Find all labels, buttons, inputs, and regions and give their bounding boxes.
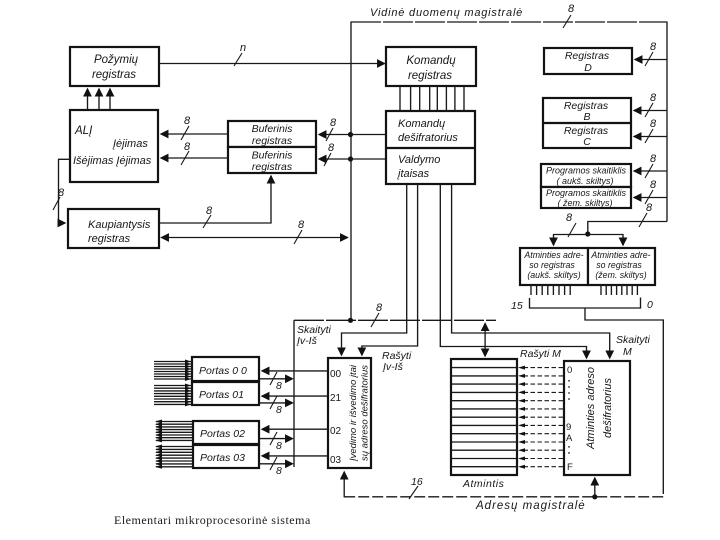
wire MAR output to right address vertical: [585, 308, 663, 494]
wire left bus vertical: [350, 22, 352, 321]
junction dot: [348, 156, 353, 161]
svg-text:8: 8: [650, 41, 657, 53]
box Portas 02: [193, 421, 259, 444]
box Atminties adreso desifratorius (memory decoder): [564, 361, 630, 475]
bus width 8 marker: [203, 205, 213, 228]
wire control line Skaityti M from Valdymo: [452, 184, 610, 358]
label Rasyti M: [520, 348, 561, 360]
svg-text:8: 8: [276, 404, 282, 416]
label port select 03: [330, 455, 342, 466]
svg-text:8: 8: [328, 142, 335, 154]
svg-text:8: 8: [650, 153, 657, 165]
svg-text:Atminties adreso: Atminties adreso: [585, 367, 597, 450]
wire select line decoder to Portas 01: [262, 395, 328, 397]
svg-text:Valdymo: Valdymo: [398, 154, 440, 166]
wire data line Portas 01 to bus vertical: [259, 402, 293, 404]
junction dot: [348, 132, 353, 137]
svg-text:16: 16: [411, 476, 423, 488]
box Atminties adreso registras (auks. skiltys): [520, 248, 588, 285]
label Rasyti Iv-Is: [382, 350, 412, 373]
label F inside decoder: [567, 462, 573, 473]
wire select line decoder to Portas 00: [262, 370, 328, 372]
wire bus to Registras B: [634, 110, 667, 112]
svg-text:Registras: Registras: [565, 50, 610, 62]
wire bus to Buferinis1: [319, 134, 351, 136]
svg-text:so registras: so registras: [529, 260, 575, 270]
svg-text:Buferinis: Buferinis: [252, 150, 294, 162]
wire Buferinis2 to ALU input: [161, 157, 228, 159]
svg-text:Įvedimo ir išvedimo įtai: Įvedimo ir išvedimo įtai: [348, 364, 359, 462]
svg-text:n: n: [240, 42, 246, 54]
label port select 02: [330, 426, 342, 437]
dots between A and F: [568, 446, 570, 458]
box Komandu desifratorius / Valdymo itaisas: [386, 111, 475, 184]
label Skaityti M: [616, 334, 651, 358]
wire bus to memory (bidirectional): [484, 324, 486, 357]
label Adresu magistrale: [475, 500, 586, 512]
wire address bus up into memory decoder: [594, 478, 596, 497]
svg-text:F: F: [567, 462, 573, 473]
svg-text:8: 8: [376, 302, 383, 314]
svg-text:0: 0: [567, 365, 572, 376]
svg-text:Adresų magistralė: Adresų magistralė: [475, 500, 586, 512]
box Portas 01: [192, 382, 259, 405]
bus width 8 marker: [53, 187, 65, 210]
wire Buferinis1 to ALU input: [161, 133, 228, 135]
svg-text:dešifratorius: dešifratorius: [398, 132, 458, 144]
svg-text:Požymių: Požymių: [94, 54, 139, 66]
svg-text:A: A: [566, 433, 573, 444]
box Portas 00: [192, 357, 259, 381]
bus width 8 marker: [294, 219, 305, 244]
box Kaupiantysis registras: [68, 209, 159, 248]
bus width 8 marker: [270, 432, 282, 452]
svg-text:Programos skaitiklis: Programos skaitiklis: [546, 188, 627, 198]
box Programos skaitiklis (auks. skiltys): [541, 164, 631, 187]
wire bus down to memory address registers: [588, 222, 667, 232]
svg-text:registras: registras: [252, 161, 293, 173]
svg-text:8: 8: [58, 187, 65, 199]
svg-text:21: 21: [330, 393, 342, 404]
svg-text:Skaityti: Skaityti: [616, 334, 651, 346]
ribbon bundle out of Portas 02: [155, 420, 193, 443]
ribbon bundle into Portas 00: [154, 360, 192, 382]
bus width 8 marker: [645, 92, 657, 117]
svg-text:Komandų: Komandų: [398, 118, 445, 130]
wire Kaupiantysis to Buferinis2: [159, 176, 271, 223]
box Buferinis registras 1: [228, 121, 316, 147]
svg-text:Įėjimas: Įėjimas: [112, 138, 148, 150]
box Programos skaitiklis (zem. skiltys): [541, 187, 631, 208]
wire junction to MAR high: [554, 235, 588, 246]
svg-text:Komandų: Komandų: [406, 55, 456, 67]
wire bus to PC low: [634, 197, 667, 199]
bus width 8 marker: [270, 372, 282, 392]
wire select line decoder to Portas 03: [262, 455, 328, 457]
wire bus to PC high: [634, 170, 667, 172]
svg-text:8: 8: [568, 3, 575, 15]
label A inside decoder: [566, 433, 573, 444]
bus width 8 marker on top bus: [563, 3, 575, 28]
label 0 inside decoder: [567, 365, 572, 376]
svg-text:Atminties adre-: Atminties adre-: [590, 250, 650, 260]
bus width 8 marker: [270, 396, 282, 416]
svg-text:Programos skaitiklis: Programos skaitiklis: [546, 166, 627, 176]
svg-text:8: 8: [276, 380, 282, 392]
svg-text:Portas 03: Portas 03: [200, 452, 245, 464]
bus width 8 marker: [270, 457, 282, 477]
svg-text:registras: registras: [252, 135, 293, 147]
svg-text:registras: registras: [92, 69, 136, 81]
box Atminties adreso registras (zem. skiltys): [588, 248, 655, 285]
svg-text:Atmintis: Atmintis: [462, 478, 505, 490]
svg-text:M: M: [623, 346, 632, 358]
wire control line Skaityti Iv-Is from Valdymo: [342, 184, 407, 355]
svg-text:(žem. skiltys): (žem. skiltys): [595, 270, 646, 280]
svg-text:( žem. skiltys): ( žem. skiltys): [558, 198, 613, 208]
svg-text:9: 9: [566, 422, 571, 433]
box Ivedimo ir isvedimo itaisu adreso desifratorius (IO decoder): [328, 358, 371, 468]
svg-text:Vidinė duomenų magistralė: Vidinė duomenų magistralė: [370, 7, 523, 19]
wire flag arrows ALU to Pozymiu 3: [109, 89, 111, 110]
wire bus to Valdymo itaisas lower: [351, 158, 387, 160]
wire control line Rasyti Iv-Is from Valdymo: [362, 184, 418, 355]
svg-text:8: 8: [206, 205, 213, 217]
box Portas 03: [193, 445, 259, 468]
box Registras D: [544, 48, 632, 74]
wire Kaupiantysis to internal bus (bidirectional): [162, 237, 348, 239]
junction dot on address bus: [592, 494, 597, 499]
bus width 16 marker: [409, 476, 423, 499]
bus width 8 marker: [645, 118, 657, 143]
svg-text:Buferinis: Buferinis: [252, 123, 294, 135]
svg-text:registras: registras: [408, 70, 452, 82]
label Vidine duomenu magistrale: [370, 7, 523, 19]
svg-text:Portas 0 0: Portas 0 0: [199, 365, 247, 377]
junction dot above MAR: [585, 231, 590, 236]
box Registras B / Registras C: [543, 98, 631, 148]
svg-text:8: 8: [650, 92, 657, 104]
svg-text:Įv-Iš: Įv-Iš: [296, 335, 318, 347]
box Pozymiu registras: [70, 47, 159, 86]
wire internal data bus top (Vidine duomenu magistrale): [351, 21, 667, 23]
bus width 8 marker: [181, 115, 191, 140]
wire data line Portas 02 to bus vertical: [259, 438, 293, 440]
bus width 8 marker: [645, 179, 657, 204]
svg-text:Portas 02: Portas 02: [200, 428, 245, 440]
bus width 8 marker: [566, 212, 576, 237]
ribbon bundle into Portas 01: [154, 384, 192, 407]
bracket under MAR pins: [530, 298, 641, 309]
wire right bus vertical: [666, 22, 668, 222]
pins under MAR low (8): [601, 285, 637, 295]
svg-text:( aukš. skiltys): ( aukš. skiltys): [556, 176, 613, 186]
svg-text:dešifratorius: dešifratorius: [602, 378, 614, 438]
caption Elementari mikroprocesorine sistema: [114, 513, 311, 527]
svg-text:Atminties adre-: Atminties adre-: [523, 250, 583, 260]
svg-text:sų adreso dešifratorius: sų adreso dešifratorius: [360, 365, 371, 461]
svg-text:8: 8: [184, 141, 191, 153]
svg-text:Rašyti M: Rašyti M: [520, 348, 561, 360]
wire bus to Registras C: [634, 136, 667, 138]
bus width 8 marker: [371, 302, 383, 327]
ribbon bundle out of Portas 03: [155, 445, 193, 469]
label port select 21: [330, 393, 342, 404]
svg-text:8: 8: [646, 202, 653, 214]
svg-text:registras: registras: [88, 233, 131, 245]
wire bus to Buferinis2: [319, 158, 351, 160]
wire junction to MAR low: [588, 235, 623, 246]
bus width 8 marker: [645, 153, 657, 178]
wire n line from Pozymiu registras to Komandu registras: [159, 63, 385, 65]
svg-text:8: 8: [650, 179, 657, 191]
svg-text:B: B: [583, 111, 590, 123]
svg-text:0: 0: [647, 299, 653, 311]
svg-text:02: 02: [330, 426, 342, 437]
svg-text:Išėjimas Įėjimas: Išėjimas Įėjimas: [73, 155, 152, 167]
bus width 8 marker: [324, 142, 335, 166]
box Buferinis registras 2: [228, 147, 316, 173]
wire ALU output to Kaupiantysis: [59, 159, 71, 223]
svg-text:Portas 01: Portas 01: [199, 389, 244, 401]
box Komandu registras: [386, 47, 476, 86]
bus width n marker: [234, 42, 246, 66]
label port select 00: [330, 369, 342, 380]
wire address bus bottom (Adresu magistrale): [344, 472, 663, 497]
svg-text:15: 15: [511, 300, 523, 312]
wire flag arrows ALU to Pozymiu 2: [98, 89, 100, 110]
svg-text:8: 8: [650, 118, 657, 130]
svg-text:03: 03: [330, 455, 342, 466]
label Skaityti Iv-Is: [296, 324, 332, 347]
svg-text:8: 8: [566, 212, 573, 224]
label Atmintis: [462, 478, 505, 490]
svg-text:8: 8: [298, 219, 305, 231]
wire flag arrows ALU to Pozymiu 1: [87, 89, 89, 110]
wire bus to Registras D: [635, 59, 667, 61]
svg-text:00: 00: [330, 369, 342, 380]
svg-text:C: C: [583, 136, 591, 148]
wire select line decoder to Portas 02: [262, 428, 328, 430]
svg-text:Elementari mikroprocesorinė: Elementari mikroprocesorinė sistema: [114, 513, 311, 527]
svg-text:(aukš. skiltys): (aukš. skiltys): [527, 270, 580, 280]
bus width 8 marker: [645, 41, 657, 66]
svg-text:įtaisas: įtaisas: [397, 168, 430, 180]
wire control line Rasyti M from Valdymo: [440, 184, 586, 358]
wire bus to Komandu desifratorius upper: [351, 134, 387, 136]
dots between 0 and 9: [568, 380, 570, 402]
box Atmintis (memory) with rows: [451, 359, 517, 475]
svg-text:8: 8: [276, 440, 282, 452]
wires decoder to memory select arrows (13): [518, 366, 563, 469]
svg-text:Kaupiantysis: Kaupiantysis: [88, 219, 151, 231]
label 15: [511, 300, 523, 312]
svg-text:D: D: [584, 62, 592, 74]
wire port data vertical line: [293, 320, 295, 467]
junction dot bus bottom: [348, 318, 353, 323]
bus width 8 marker on vertical: [639, 202, 653, 227]
box ALU (ALI): [70, 110, 158, 182]
wire data line Portas 03 to bus vertical: [259, 463, 293, 465]
wire data line Portas 00 to bus vertical: [259, 378, 293, 380]
svg-text:ALĮ: ALĮ: [74, 125, 93, 137]
pins under MAR high (8): [531, 285, 570, 295]
wire internal bus bottom horizontal segment: [294, 319, 496, 321]
bus width 8 marker: [181, 141, 191, 165]
svg-text:Įv-Iš: Įv-Iš: [382, 361, 404, 373]
svg-text:8: 8: [330, 117, 337, 129]
label 9 inside decoder: [566, 422, 571, 433]
label 0: [647, 299, 653, 311]
svg-text:8: 8: [276, 465, 282, 477]
bus width 8 marker: [326, 117, 337, 141]
wires Komandu registras to desifratorius (8 lines): [400, 86, 464, 111]
svg-text:8: 8: [184, 115, 191, 127]
svg-text:so registras: so registras: [596, 260, 642, 270]
